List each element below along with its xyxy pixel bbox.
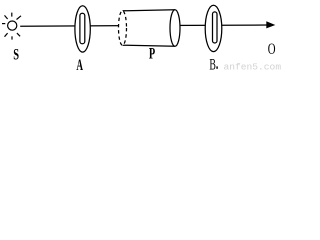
lens A inner capsule [80, 13, 85, 44]
cylinder P right end ellipse [170, 10, 180, 47]
cylinder P body [123, 10, 176, 46]
svg-text:B: B [209, 57, 216, 71]
lens B inner capsule [213, 12, 218, 43]
svg-text:P: P [149, 46, 155, 63]
node: small dark mark at lower-right of label B [216, 66, 218, 68]
svg-text:O: O [268, 41, 276, 58]
svg-text:S: S [13, 46, 19, 63]
svg-text:A: A [76, 57, 83, 71]
lens B outer ellipse [205, 5, 222, 51]
lens A outer ellipse [75, 6, 90, 52]
light source S (sun symbol) [2, 13, 21, 40]
svg-text:anfen5.com: anfen5.com [224, 61, 282, 71]
cylinder P left end dashed ellipse [119, 11, 127, 45]
wire: main optical axis line [20, 25, 268, 26]
arrowhead at O [266, 21, 275, 28]
